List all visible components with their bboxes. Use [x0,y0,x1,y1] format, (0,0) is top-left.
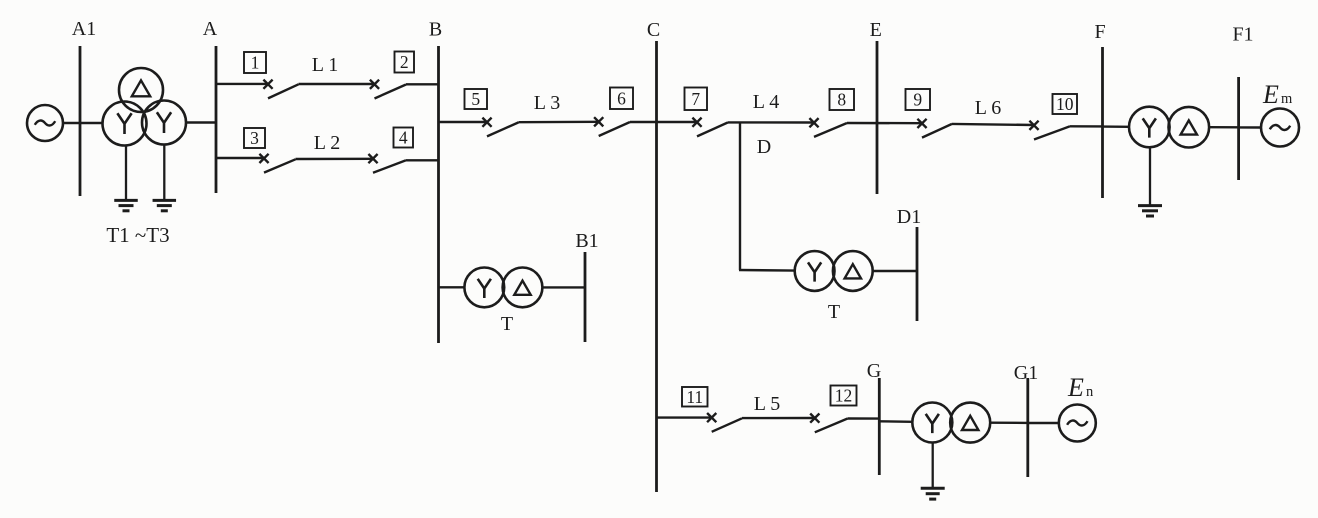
label A [203,18,218,40]
wire [990,422,1028,425]
wire [542,286,585,288]
wire [186,121,216,123]
svg-text:8: 8 [837,90,846,110]
label G [867,360,881,382]
label D1 [897,206,921,228]
svg-text:E: E [1262,80,1279,109]
svg-text:E: E [1067,373,1084,402]
breaker 2 [370,52,414,99]
svg-text:m: m [1281,91,1293,107]
svg-text:G1: G1 [1014,362,1038,384]
bus D1 [916,227,919,321]
transformer (F side) [1129,107,1209,148]
label B [429,19,442,41]
label B1 [575,230,598,252]
svg-text:T: T [501,313,513,335]
breaker 9 [906,89,953,138]
wire [1103,125,1130,128]
wire [1028,422,1059,424]
svg-text:9: 9 [913,90,922,110]
transformer T1~T3 (three-winding) [103,68,187,146]
wire [299,83,375,85]
label Em [1262,80,1293,109]
breaker 11 [682,387,742,432]
ground [921,443,945,499]
bus B [437,46,440,343]
label L3 [534,92,560,114]
bus F [1101,47,1104,198]
svg-text:L 1: L 1 [312,54,338,76]
wire [847,122,922,125]
bus A [215,46,218,193]
transformer (G side) [912,403,990,443]
svg-text:6: 6 [617,88,626,108]
breaker 12 [810,386,856,433]
svg-text:L 6: L 6 [975,97,1001,119]
wire [1070,125,1103,127]
wire [742,417,814,420]
wire [439,286,465,288]
bus G [878,378,881,475]
svg-text:L 3: L 3 [534,92,560,114]
wire [879,420,912,423]
label L5 [754,393,780,415]
wire [216,157,264,159]
breaker 10 [1029,94,1077,140]
breaker 7 [685,88,729,137]
wire [439,121,488,123]
ground [114,146,138,211]
label A1 [72,18,96,40]
wire [406,159,439,161]
svg-text:B1: B1 [575,230,598,252]
bus E [876,41,879,194]
svg-text:D: D [757,136,771,158]
label F1 [1232,24,1253,46]
wire [519,121,599,124]
wire [630,121,697,123]
node D drop wire [739,123,795,271]
svg-text:L 2: L 2 [314,132,340,154]
breaker 3 [244,128,296,173]
breaker 8 [809,89,854,137]
label E [870,19,882,41]
wire [63,122,104,124]
label L2 [314,132,340,154]
svg-text:L 4: L 4 [753,91,779,113]
bus G1 [1026,378,1029,477]
ground [153,145,177,211]
label T [501,313,513,335]
label G1 [1014,362,1038,384]
label F [1094,21,1105,43]
breaker 6 [594,88,633,137]
svg-text:F1: F1 [1232,24,1253,46]
svg-text:5: 5 [471,89,480,109]
wire [1239,126,1261,128]
svg-text:7: 7 [691,89,700,109]
ground [1138,147,1162,216]
svg-text:C: C [647,19,660,41]
svg-text:n: n [1086,384,1094,400]
svg-text:L 5: L 5 [754,393,780,415]
wire [728,121,814,123]
label D [757,136,771,158]
wire [873,270,917,272]
svg-text:D1: D1 [897,206,921,228]
label T1~T3 [106,223,169,247]
svg-text:4: 4 [399,128,408,148]
transformer T (B branch) [464,268,542,308]
breaker 1 [244,52,299,98]
svg-text:E: E [870,19,882,41]
svg-text:2: 2 [400,52,409,72]
label L1 [312,54,338,76]
wire [406,83,439,85]
svg-text:11: 11 [686,387,703,407]
wire [216,83,268,85]
generator En [1059,405,1096,442]
generator G1 (system source) [27,105,63,141]
bus A1 [79,46,82,196]
wire [1209,126,1239,129]
svg-text:T1 ~T3: T1 ~T3 [106,223,169,247]
label C [647,19,660,41]
wire [952,124,1034,125]
breaker 4 [368,128,413,173]
svg-text:G: G [867,360,881,382]
label En [1067,373,1094,402]
bus B1 [584,252,587,342]
label L6 [975,97,1001,119]
svg-text:10: 10 [1056,94,1074,114]
svg-text:1: 1 [251,53,260,73]
breaker 5 [465,89,519,136]
svg-text:A1: A1 [72,18,96,40]
svg-text:B: B [429,19,442,41]
bus C [655,41,658,492]
label L4 [753,91,779,113]
label T [828,301,840,323]
wire [296,158,374,161]
generator Em [1261,109,1299,147]
svg-text:T: T [828,301,840,323]
wire [657,416,712,418]
svg-text:3: 3 [250,128,259,148]
svg-text:F: F [1094,21,1105,43]
svg-text:12: 12 [835,386,853,406]
wire [848,417,880,420]
svg-text:A: A [203,18,218,40]
bus F1 [1237,77,1240,180]
transformer T (D branch) [795,251,873,291]
